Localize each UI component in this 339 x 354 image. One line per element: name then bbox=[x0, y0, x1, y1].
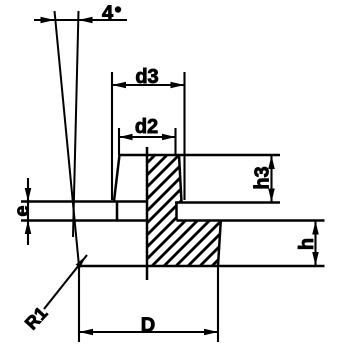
svg-text:h3: h3 bbox=[252, 166, 274, 189]
svg-text:d3: d3 bbox=[135, 66, 158, 88]
svg-text:d2: d2 bbox=[135, 116, 158, 138]
svg-text:h: h bbox=[296, 238, 318, 250]
svg-text:4: 4 bbox=[102, 3, 114, 25]
svg-text:D: D bbox=[141, 315, 155, 337]
svg-text:e: e bbox=[12, 205, 34, 216]
